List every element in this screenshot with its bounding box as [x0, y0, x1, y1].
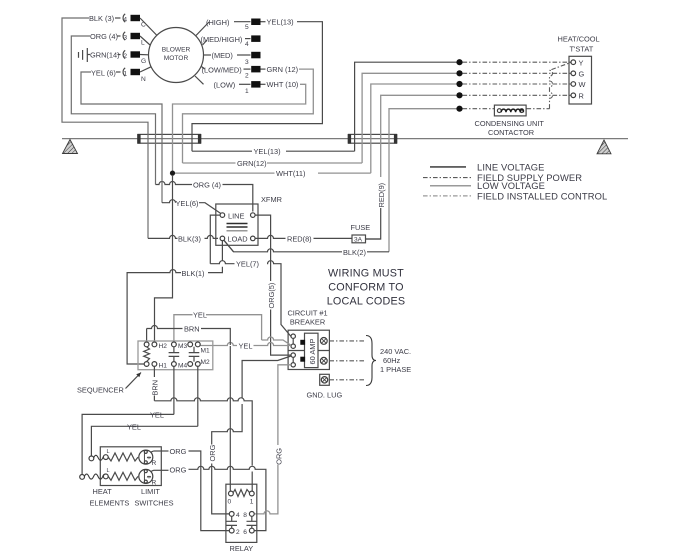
svg-text:LINE: LINE — [228, 211, 245, 220]
wire WHT(11) row below bus to riser — [173, 172, 275, 174]
wire GRN(12): motor LOW/MED loop down through crossover box1 — [183, 69, 314, 163]
wire YEL row2 to heat element 1 — [91, 426, 197, 456]
bottom distribution row with hops to relay coil 1 — [154, 398, 252, 466]
wire YEL(13): motor HIGH loop down through crossover box1 — [192, 22, 322, 152]
breaker screw terminals — [320, 338, 327, 365]
main ground bus — [62, 138, 628, 140]
svg-text:M2: M2 — [201, 359, 210, 366]
svg-text:4: 4 — [236, 512, 240, 519]
svg-text:LINE VOLTAGE: LINE VOLTAGE — [477, 162, 545, 173]
wire M2 drop to YEL row2 — [197, 366, 199, 426]
svg-text:R: R — [579, 92, 584, 101]
wire YEL(13) riser to Y dot row — [355, 62, 459, 151]
wire YEL(6) row below bus, diagonal to XFMR LINE left — [162, 200, 221, 214]
field dashed riser from contactor to Y with hops — [550, 63, 571, 109]
sequencer contact M3-M4 — [169, 347, 180, 362]
svg-text:MOTOR: MOTOR — [164, 55, 189, 62]
wire riser to breaker terminal 2 with hop — [262, 337, 291, 345]
svg-text:SWITCHES: SWITCHES — [135, 498, 174, 507]
svg-text:YEL: YEL — [193, 311, 207, 320]
svg-text:FUSE: FUSE — [351, 223, 371, 232]
wire GRN(12) riser to G dot row — [362, 73, 458, 163]
svg-text:HEAT/COOL: HEAT/COOL — [558, 35, 600, 44]
sequencer box — [138, 341, 213, 370]
svg-text:M4: M4 — [178, 363, 187, 370]
XFMR core bars — [227, 223, 248, 225]
svg-text:ELEMENTS: ELEMENTS — [90, 498, 130, 507]
svg-text:YEL (6): YEL (6) — [91, 69, 116, 78]
svg-text:ORG: ORG — [208, 444, 217, 461]
svg-text:1 PHASE: 1 PHASE — [380, 365, 411, 374]
svg-text:YEL(13): YEL(13) — [254, 147, 281, 156]
svg-text:BLK(3): BLK(3) — [178, 234, 201, 243]
wire M4 drop to YEL row1 — [173, 366, 175, 414]
wire ORG(4) row below bus with hops, to XFMR LINE right — [156, 182, 253, 212]
svg-text:YEL: YEL — [127, 422, 141, 431]
svg-text:T'STAT: T'STAT — [570, 45, 594, 54]
svg-text:H1: H1 — [159, 363, 168, 370]
svg-text:N: N — [141, 76, 146, 83]
relay contact 8-6 — [249, 512, 254, 517]
wire RED(9) riser: R dot row down to fuse — [381, 95, 459, 177]
ground symbol left — [63, 140, 78, 154]
svg-text:ORG (4): ORG (4) — [193, 181, 221, 190]
svg-text:6: 6 — [243, 529, 247, 536]
svg-text:ORG(5): ORG(5) — [267, 283, 276, 309]
condensing unit contactor coil box — [494, 105, 526, 116]
svg-text:(LOW/MED): (LOW/MED) — [202, 65, 242, 74]
svg-text:GRN (12): GRN (12) — [267, 65, 299, 74]
field dashed line Y row — [463, 61, 571, 63]
wire ORG row1 into relay terminal 2 — [201, 528, 230, 531]
t'stat terminal W — [571, 82, 576, 87]
svg-text:RED(9): RED(9) — [377, 183, 386, 208]
svg-text:CONDENSING UNIT: CONDENSING UNIT — [475, 119, 545, 128]
sequencer terminal M4 — [172, 362, 177, 367]
svg-text:RED(8): RED(8) — [287, 234, 312, 243]
heat/cool t'stat box — [569, 56, 592, 104]
curly brace 240VAC — [366, 336, 376, 386]
relay box — [226, 484, 257, 542]
svg-text:3A: 3A — [354, 237, 363, 244]
svg-text:WHT (10): WHT (10) — [267, 80, 299, 89]
svg-text:R: R — [152, 460, 157, 467]
fuse 3A box — [352, 235, 366, 243]
t'stat terminal R — [571, 93, 576, 98]
XFMR LOAD terminals — [220, 236, 225, 241]
svg-text:(HIGH): (HIGH) — [206, 18, 229, 27]
svg-text:L: L — [107, 468, 110, 474]
svg-text:ORG: ORG — [274, 448, 283, 465]
sequencer contact M1-M2 — [189, 347, 200, 362]
svg-text:CIRCUIT #1: CIRCUIT #1 — [287, 309, 327, 318]
relay contact 4-2 — [229, 512, 234, 517]
wire H1 right down BRN label to bottom row — [153, 366, 155, 377]
wire ORG(5): LINE right terminal over and down to breaker — [255, 215, 271, 281]
svg-text:(MED/HIGH): (MED/HIGH) — [201, 35, 243, 44]
svg-text:LOCAL CODES: LOCAL CODES — [327, 296, 406, 308]
legend line voltage — [430, 166, 466, 168]
svg-text:Y: Y — [579, 58, 584, 67]
blower motor circle — [149, 28, 204, 83]
wire YEL(13) row below bus to riser — [192, 150, 252, 152]
legend field supply power — [423, 177, 472, 179]
svg-text:SEQUENCER: SEQUENCER — [77, 386, 124, 395]
motor right terminal 2 LOW/MED: wire GRN (12) — [202, 65, 299, 80]
svg-text:WHT(11): WHT(11) — [276, 169, 305, 178]
svg-text:YEL(7): YEL(7) — [236, 260, 259, 269]
svg-text:5: 5 — [245, 24, 249, 31]
svg-text:GRN(12): GRN(12) — [237, 159, 267, 168]
wire BRN riser continues down to relay coil 0 — [229, 346, 231, 492]
heat element row 1: pigtail, circle, zigzag, limit switch — [89, 449, 157, 467]
wire BRN row: H2 to relay coil drop with hop — [147, 326, 231, 346]
field dashed line G row — [463, 72, 571, 74]
wire BLK(1): LOAD left terminal down with hop over YEL(7), to row — [208, 241, 222, 273]
sequencer terminal M3 — [172, 342, 177, 347]
wire ORG net: relay 4 up to breaker 3 — [212, 464, 234, 514]
svg-text:M1: M1 — [201, 348, 210, 355]
svg-text:XFMR: XFMR — [261, 195, 282, 204]
wire YEL row1 to heat element 2 — [82, 414, 174, 474]
svg-text:3: 3 — [245, 59, 249, 66]
ground symbol right — [597, 140, 611, 154]
motor right terminal 4 MED/HIGH — [201, 35, 261, 48]
svg-text:HEAT: HEAT — [93, 487, 113, 496]
sequencer heater zigzag between H2 H1 — [144, 347, 150, 362]
t'stat terminal G — [571, 71, 576, 76]
svg-text:RELAY: RELAY — [230, 544, 254, 553]
circuit breaker box — [288, 330, 329, 369]
motor right terminal 1 LOW: wire WHT (10) — [195, 76, 298, 95]
svg-text:2: 2 — [245, 73, 249, 80]
heat elements / limit switches box — [100, 447, 161, 486]
breaker 60 AMP block — [305, 333, 319, 367]
sequencer terminals H1 — [144, 362, 149, 367]
svg-text:GND. LUG: GND. LUG — [307, 391, 343, 400]
sequencer terminals M1 — [188, 342, 193, 347]
wire ORG row1: limit switch 1 to relay 2 drop — [154, 450, 169, 452]
sequencer YEL row to breaker riser — [174, 315, 193, 342]
wire BLK(2) riser: contactor dot row down to BLK(2) row — [389, 109, 459, 252]
svg-text:BREAKER: BREAKER — [290, 318, 325, 327]
gnd lug screw — [320, 374, 330, 385]
wire WHT(11) riser to W dot row — [371, 84, 459, 173]
svg-text:8: 8 — [243, 512, 247, 519]
legend low voltage — [430, 185, 471, 187]
field dashed line contactor row — [463, 108, 495, 110]
svg-text:YEL(6): YEL(6) — [176, 199, 199, 208]
legend field installed control — [423, 195, 472, 197]
svg-text:LIMIT: LIMIT — [141, 487, 160, 496]
svg-text:2: 2 — [123, 53, 127, 60]
svg-text:ORG: ORG — [170, 447, 187, 456]
wire from LINE left terminal to YEL(7) drop — [210, 215, 220, 264]
svg-text:ORG: ORG — [170, 466, 187, 475]
wire WHT(10): motor LOW loop down through crossover box1 — [173, 84, 306, 173]
svg-text:60Hz: 60Hz — [383, 356, 401, 365]
chassis ground at GRN(14) — [79, 48, 91, 62]
wire fuse to RED(9) riser — [366, 238, 381, 240]
svg-text:3: 3 — [123, 34, 127, 41]
wire BLK(2) row to XFMR LOAD left diagonal — [224, 241, 389, 252]
svg-text:H2: H2 — [159, 343, 168, 350]
wire WHT net continuation: dot down to sequencer H2 with hops — [155, 176, 173, 342]
wire ORG gray: breaker 4 down to relay 8 with hop — [278, 365, 291, 445]
wire H2 left terminal up to BRN row — [146, 329, 148, 342]
svg-text:ORG (4): ORG (4) — [90, 32, 118, 41]
motor left terminal L: label ORG (4), pin arc 3, terminal square, letter L — [90, 32, 150, 47]
svg-text:BRN: BRN — [184, 325, 200, 334]
wire BLK(3) row below bus with hops, to XFMR LOAD left — [148, 235, 218, 238]
svg-text:BLK(1): BLK(1) — [182, 269, 205, 278]
sequencer terminals M2 — [188, 362, 193, 367]
svg-text:0: 0 — [228, 498, 232, 505]
heat element row 2: pigtail, circle, zigzag, limit switch — [80, 468, 157, 486]
svg-text:WIRING MUST: WIRING MUST — [328, 268, 404, 280]
wire BLK(3) loop: motor C to bus crossover to LOAD terminal — [62, 18, 148, 238]
svg-text:R: R — [152, 479, 157, 486]
motor right terminal 5 HIGH: label, square, wire YEL(13) — [196, 18, 294, 36]
wire GRN(12) row below bus to riser — [183, 162, 236, 164]
svg-text:(MED): (MED) — [212, 51, 233, 60]
wire YEL(6) loop: motor N to bus crossover — [81, 72, 162, 203]
wire ORG row2: limit switch 2 to relay 6 drop, with hops — [154, 469, 169, 471]
svg-text:(LOW): (LOW) — [214, 80, 236, 89]
relay coil terminals 0 and 1 with coil — [229, 491, 234, 496]
junction dots at contactor rows — [456, 59, 462, 65]
sequencer terminals H2 — [144, 342, 149, 347]
wire LOAD left diagonal to BLK(2) row — [224, 240, 234, 252]
svg-text:1: 1 — [123, 70, 127, 77]
svg-text:4: 4 — [123, 16, 127, 23]
svg-text:G: G — [141, 58, 146, 65]
svg-text:YEL: YEL — [150, 410, 164, 419]
svg-text:M3: M3 — [178, 343, 187, 350]
svg-text:G: G — [579, 70, 585, 79]
field dashed line W row — [463, 83, 571, 85]
breaker terminal circles — [291, 334, 295, 338]
XFMR LINE terminals — [220, 213, 225, 218]
svg-text:1: 1 — [250, 498, 254, 505]
svg-text:BLK(2): BLK(2) — [343, 248, 366, 257]
wire M1 YEL row to breaker terminal 2 with hops — [200, 343, 291, 346]
svg-text:BRN: BRN — [151, 380, 160, 396]
svg-text:1: 1 — [245, 88, 249, 95]
t'stat terminal Y — [571, 60, 576, 65]
bus crossover box 2 — [349, 134, 397, 143]
svg-text:LOAD: LOAD — [228, 235, 248, 244]
svg-text:BLK (3): BLK (3) — [89, 14, 114, 23]
field dashed line R row — [463, 94, 571, 96]
wire YEL(7) row with hop, from drop to right riser — [210, 261, 290, 337]
svg-text:YEL: YEL — [239, 342, 253, 351]
svg-text:L: L — [107, 449, 110, 455]
svg-text:240 VAC.: 240 VAC. — [380, 347, 411, 356]
svg-text:2: 2 — [236, 529, 240, 536]
junction dot WHT(11) — [170, 171, 175, 176]
motor left terminal C: label BLK (3), pin arc 4, terminal square, letter C — [89, 14, 157, 36]
motor left terminal N: label YEL (6), pin arc 1, terminal square, letter N — [91, 67, 151, 83]
svg-text:CONFORM TO: CONFORM TO — [328, 282, 403, 294]
svg-text:4: 4 — [245, 41, 249, 48]
bus crossover box 1 — [138, 134, 201, 143]
svg-text:YEL(13): YEL(13) — [267, 18, 294, 27]
svg-text:CONTACTOR: CONTACTOR — [488, 128, 534, 137]
wire RED(8): LOAD right terminal to fuse with hop — [255, 235, 352, 238]
svg-text:60 AMP: 60 AMP — [308, 339, 317, 365]
motor left terminal G: label GRN(14), pin arc 2, terminal square, letter G — [90, 50, 149, 65]
svg-text:GRN(14): GRN(14) — [90, 51, 120, 60]
transformer XFMR box — [216, 204, 258, 245]
motor right terminal 3 MED — [204, 51, 261, 66]
field dashed output lines from breaker — [329, 340, 364, 342]
svg-text:FIELD INSTALLED CONTROL: FIELD INSTALLED CONTROL — [477, 191, 607, 202]
wire ORG(4) loop: motor L to bus crossover — [71, 36, 155, 185]
svg-text:BLOWER: BLOWER — [162, 47, 191, 54]
svg-text:W: W — [579, 80, 586, 89]
